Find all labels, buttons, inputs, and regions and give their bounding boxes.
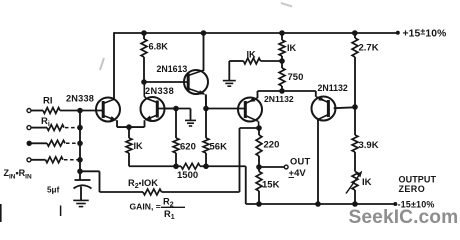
svg-text:750: 750 — [288, 72, 304, 83]
svg-text:2N338: 2N338 — [145, 86, 174, 96]
svg-text:R1: R1 — [164, 209, 175, 221]
svg-text:IK: IK — [134, 141, 144, 151]
svg-text:2.7K: 2.7K — [359, 43, 379, 54]
svg-text:2N1132: 2N1132 — [264, 94, 294, 104]
svg-text:220: 220 — [264, 140, 280, 151]
svg-text:IK: IK — [287, 43, 297, 53]
svg-text:620: 620 — [180, 142, 196, 153]
svg-text:2N1132: 2N1132 — [318, 83, 348, 93]
svg-text:5μf: 5μf — [47, 186, 60, 195]
svg-text:Ri: Ri — [41, 116, 50, 128]
svg-text:+15±10%: +15±10% — [403, 26, 447, 39]
svg-text:IK: IK — [362, 177, 372, 188]
svg-text:1500: 1500 — [177, 170, 198, 181]
svg-text:ZERO: ZERO — [399, 184, 426, 194]
svg-text:56K: 56K — [210, 142, 228, 153]
svg-text:6.8K: 6.8K — [149, 42, 169, 52]
svg-text:2N1613: 2N1613 — [157, 64, 188, 74]
svg-text:GAIN, =: GAIN, = — [130, 202, 161, 212]
svg-text:ZIN•RIN: ZIN•RIN — [4, 168, 32, 181]
svg-text:OUTPUT: OUTPUT — [399, 175, 437, 185]
svg-text:3.9K: 3.9K — [359, 140, 379, 151]
svg-text:RI: RI — [43, 96, 53, 107]
svg-text:IK: IK — [247, 50, 257, 60]
svg-text:SeekIC.com: SeekIC.com — [349, 207, 459, 228]
svg-text:2N338: 2N338 — [66, 94, 94, 104]
svg-text:+4V: +4V — [289, 168, 307, 179]
svg-text:OUT: OUT — [290, 156, 311, 166]
svg-text:15K: 15K — [262, 180, 280, 191]
